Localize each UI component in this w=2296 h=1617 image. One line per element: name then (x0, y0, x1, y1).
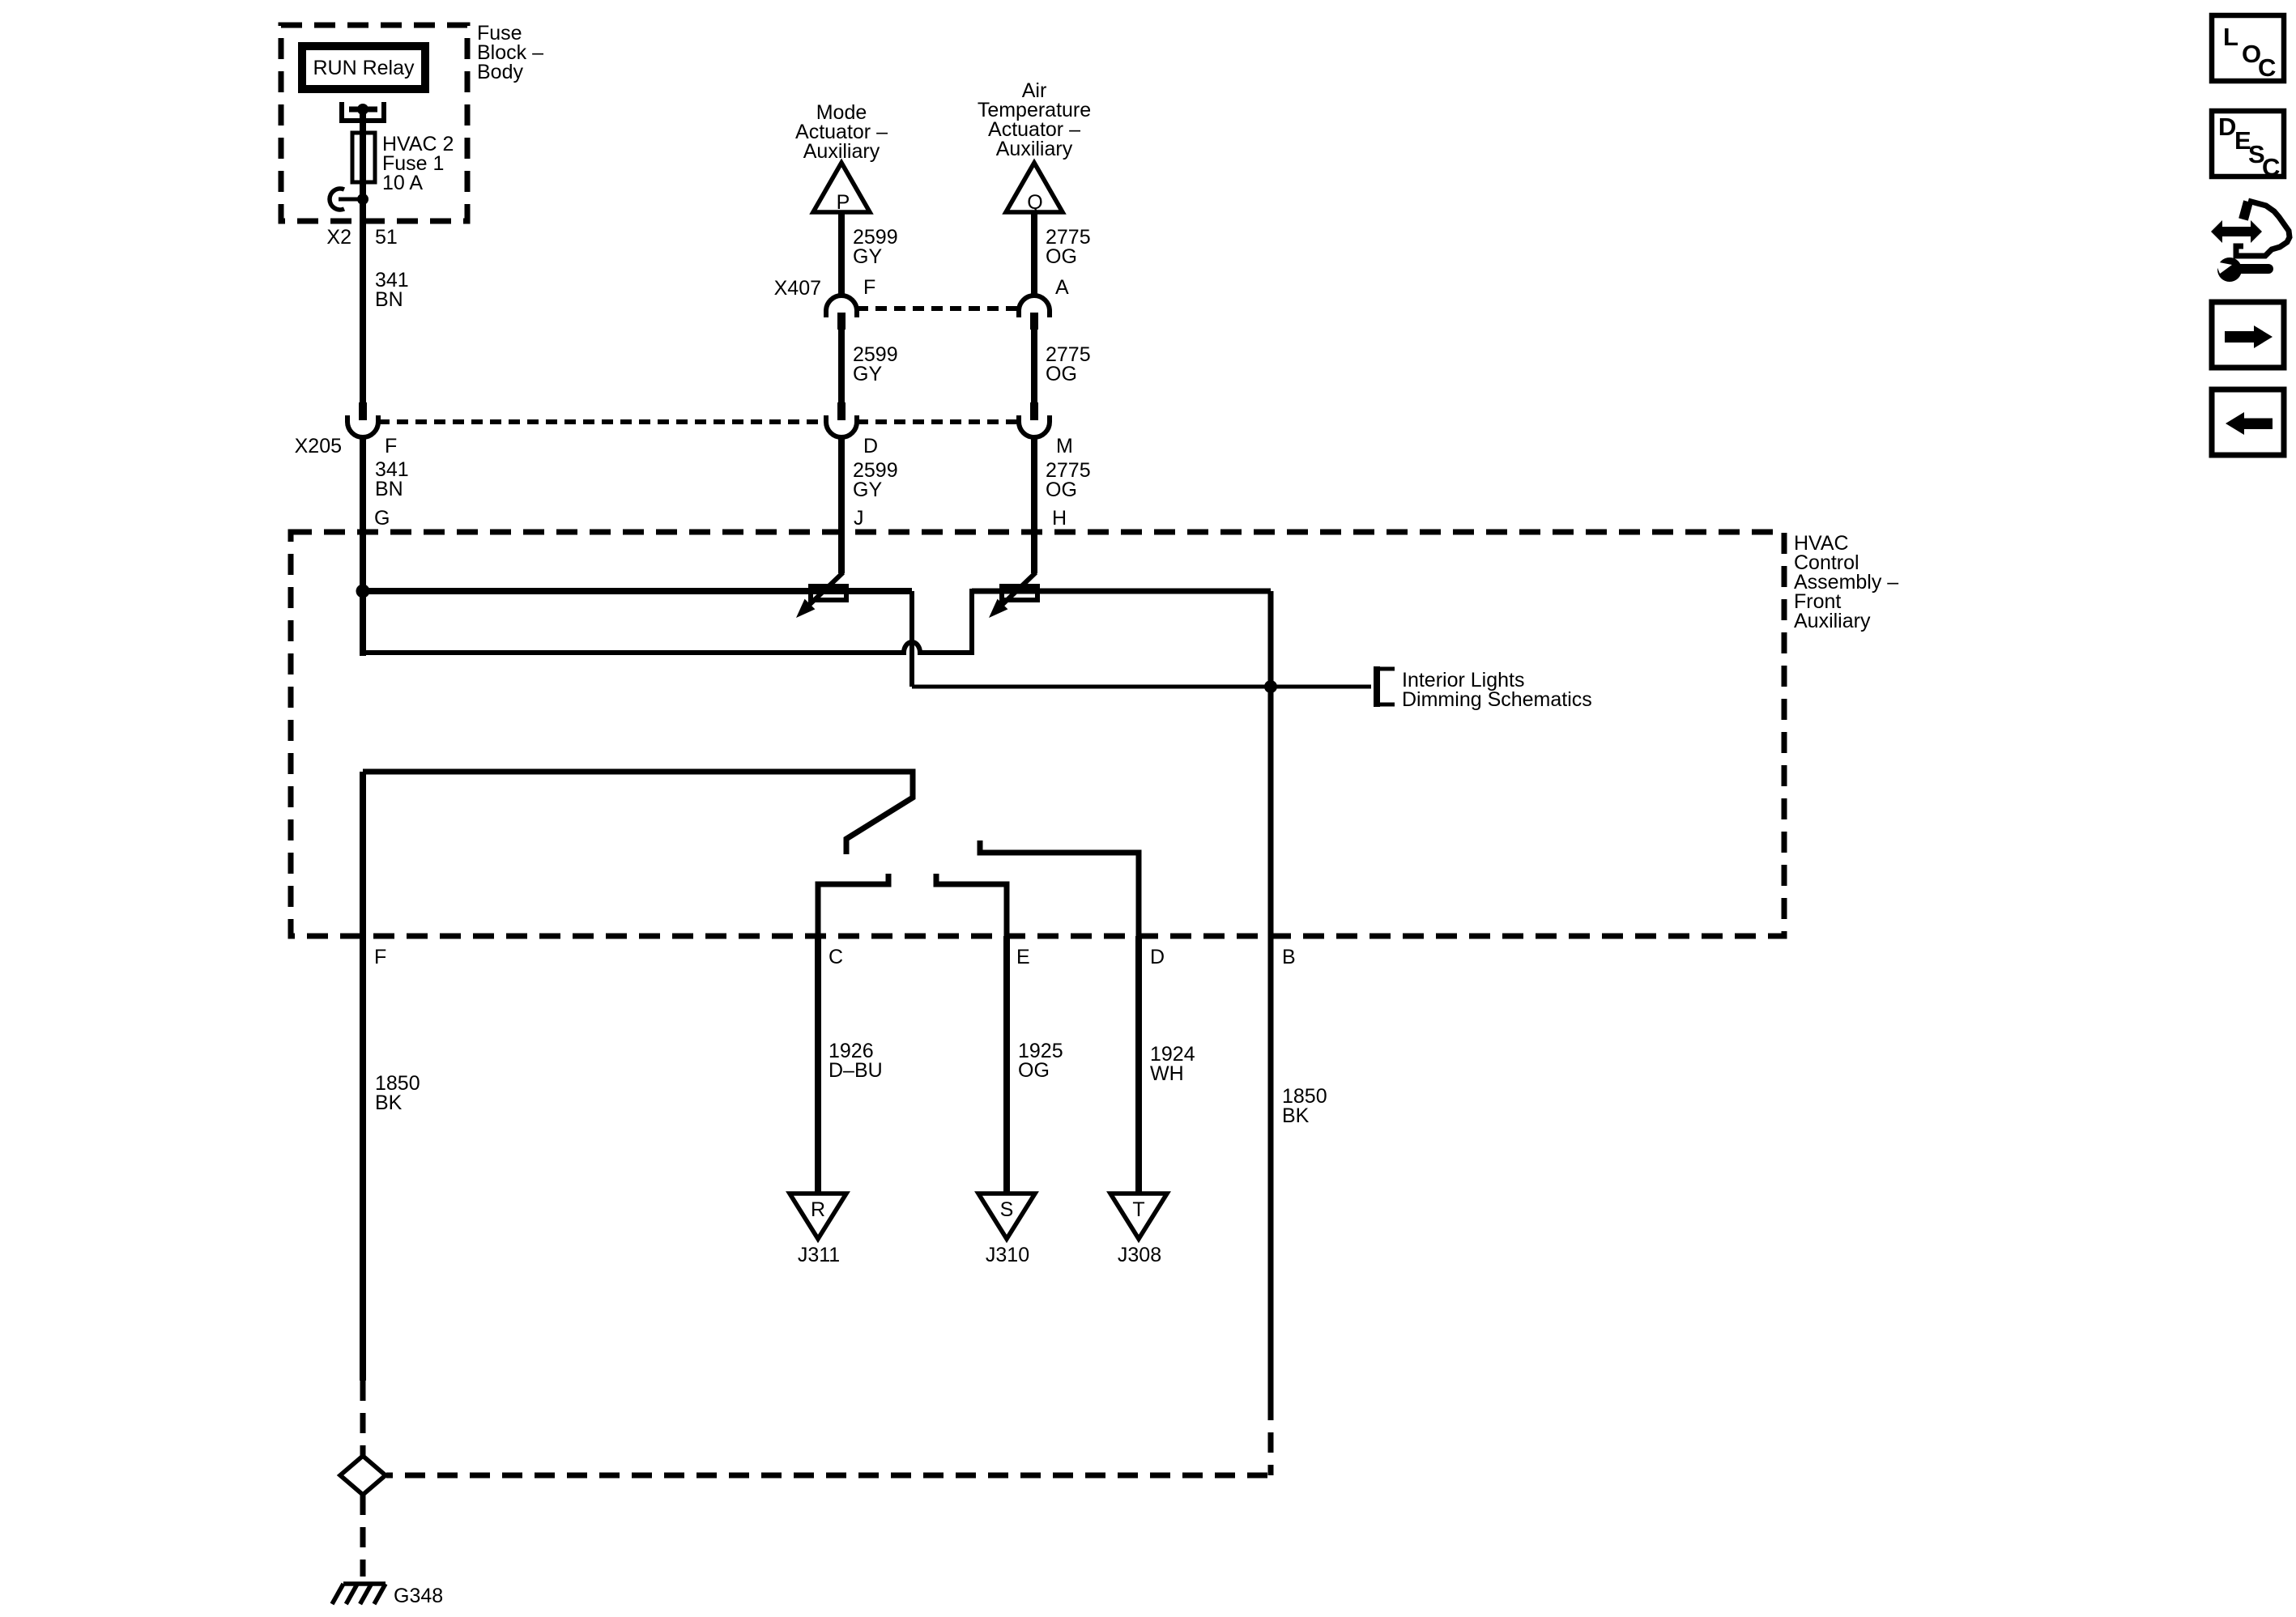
triangle connector S (978, 1194, 1035, 1239)
svg-text:M: M (1056, 435, 1073, 457)
svg-text:Auxiliary: Auxiliary (996, 138, 1073, 160)
dashed connector line X205 (378, 419, 826, 424)
fuse block dashed box: Fuse Block - Body (281, 25, 467, 221)
switch contact E (936, 874, 1007, 936)
svg-text:G348: G348 (394, 1585, 443, 1607)
svg-text:BN: BN (375, 478, 403, 500)
svg-text:E: E (1016, 946, 1030, 968)
icon wrench handle (2237, 264, 2268, 274)
svg-text:F: F (374, 946, 386, 968)
svg-text:C: C (2258, 53, 2276, 82)
svg-text:BN: BN (375, 288, 403, 311)
svg-text:S: S (1000, 1198, 1014, 1221)
connector X205 pin M arc (1019, 415, 1050, 437)
interior lights bracket (1374, 666, 1380, 707)
wire C 1926 D-BU (815, 936, 821, 1192)
connector tick (339, 198, 363, 202)
connector X205 pin D male blade (837, 402, 846, 420)
connector X205 pin M male blade (1030, 402, 1038, 420)
pot2 diagonal (997, 572, 1036, 610)
svg-text:T: T (1132, 1198, 1144, 1221)
svg-text:OG: OG (1046, 479, 1077, 501)
svg-text:OG: OG (1018, 1059, 1050, 1082)
wire: fuse block X2 pin 51 down to X205 (360, 199, 366, 403)
icon forward arrow box (2212, 302, 2284, 368)
wire Q to X407 (1031, 212, 1037, 297)
icon wrench notch (2215, 262, 2232, 274)
svg-text:R: R (811, 1198, 825, 1221)
svg-text:L: L (2223, 23, 2238, 51)
svg-text:WH: WH (1150, 1062, 1184, 1085)
connector X205 pin D arc (826, 415, 857, 437)
icon DESC box (2212, 111, 2284, 177)
svg-text:C: C (2262, 153, 2280, 181)
pot2 rect (1002, 586, 1037, 600)
switch contact C (818, 874, 888, 936)
svg-text:J310: J310 (986, 1244, 1029, 1266)
icon schematic reference double arrow (2211, 220, 2262, 243)
svg-text:J311: J311 (798, 1244, 840, 1266)
connector X407 pin F arc (826, 296, 857, 317)
wire F inside box (360, 772, 366, 936)
wire pot2 horizontal (972, 589, 1271, 594)
svg-text:Body: Body (477, 61, 523, 83)
svg-text:F: F (385, 435, 397, 457)
switch blade from F wire (363, 772, 913, 854)
pot1 diagonal (804, 572, 843, 610)
connector X407 pin A male blade (1030, 313, 1038, 330)
connector X407 pin A arc (1019, 296, 1050, 317)
wire 2775 OG below X205 (1031, 437, 1037, 532)
splice diamond (340, 1456, 386, 1495)
svg-text:51: 51 (375, 226, 398, 249)
svg-text:P: P (837, 191, 850, 214)
wire 341 BN below X205 (360, 437, 366, 532)
svg-text:Dimming Schematics: Dimming Schematics (1402, 688, 1592, 711)
wire E 1925 OG (1003, 936, 1010, 1192)
svg-text:J: J (854, 507, 864, 530)
connector hook at fuse output (330, 189, 344, 210)
junction dot B (1264, 680, 1277, 693)
junction dot at relay terminal (357, 104, 368, 115)
HVAC Control Assembly dashed box (291, 532, 1784, 936)
pot1 arrowhead (796, 599, 815, 618)
triangle connector Q (1006, 163, 1063, 212)
wire B vertical from pot2 (1268, 591, 1274, 1400)
svg-text:H: H (1052, 507, 1067, 530)
triangle connector P (813, 163, 870, 212)
dashed wire B to splice (386, 1473, 1267, 1479)
svg-text:D: D (863, 435, 878, 457)
svg-text:GY: GY (853, 363, 882, 385)
icon LOC box (2212, 15, 2284, 81)
wire G into box (360, 532, 366, 656)
relay RUN Relay box (302, 46, 425, 89)
wire J to pot1 (838, 532, 845, 573)
dashed wire F to ground splice (360, 1381, 366, 1456)
wire P to X407 (838, 212, 845, 297)
svg-text:D–BU: D–BU (829, 1059, 883, 1082)
pot2 arrowhead (989, 599, 1007, 618)
wire lower horizontal with hop (363, 591, 1001, 653)
svg-text:X2: X2 (326, 226, 351, 249)
junction dot at fuse output (357, 194, 368, 205)
svg-text:10 A: 10 A (382, 172, 423, 194)
svg-text:X205: X205 (295, 435, 342, 457)
fuse F1: HVAC 2 Fuse 1 10 A (352, 133, 375, 182)
wire 2775 OG between X407 and X205 (1031, 330, 1037, 403)
wire F 1850 BK below box (360, 936, 366, 1381)
svg-text:RUN Relay: RUN Relay (313, 57, 415, 79)
wire vertical drop after pot1 (909, 591, 914, 687)
connector X205 pin F male blade (359, 402, 367, 420)
svg-text:OG: OG (1046, 363, 1077, 385)
svg-text:B: B (1282, 946, 1296, 968)
ground G348 (343, 1581, 386, 1586)
svg-text:C: C (829, 946, 843, 968)
svg-text:D: D (1150, 946, 1165, 968)
svg-text:X407: X407 (774, 277, 821, 300)
icon back arrow box (2212, 389, 2284, 455)
dashed wire splice to ground (360, 1495, 366, 1577)
triangle connector R (790, 1194, 846, 1239)
triangle connector T (1110, 1194, 1167, 1239)
pot1 rect (811, 586, 846, 600)
icon schematic reference band (2243, 202, 2248, 219)
wire 2599 GY between X407 and X205 (838, 330, 845, 403)
svg-text:GY: GY (853, 479, 882, 501)
dashed connector line X407 (857, 306, 1019, 311)
svg-text:F: F (863, 276, 875, 299)
svg-text:OG: OG (1046, 245, 1077, 268)
wire relay to fuse (360, 109, 366, 202)
junction dot left (356, 585, 370, 598)
svg-text:Auxiliary: Auxiliary (1794, 610, 1871, 632)
svg-text:A: A (1055, 276, 1069, 299)
svg-text:BK: BK (375, 1091, 403, 1114)
relay contact bracket (342, 102, 384, 121)
wire H to pot2 (1031, 532, 1037, 573)
connector X407 pin F male blade (837, 313, 846, 330)
svg-text:G: G (374, 507, 390, 530)
wire D 1924 WH (1135, 936, 1142, 1192)
dashed wire B down (1268, 1400, 1274, 1475)
svg-text:Q: Q (1027, 191, 1042, 214)
connector X205 pin F arc (347, 415, 378, 437)
svg-text:BK: BK (1282, 1104, 1310, 1127)
svg-text:J308: J308 (1118, 1244, 1161, 1266)
wire horizontal to interior lights (912, 685, 1371, 689)
relay terminal bar (349, 107, 377, 113)
wire top horizontal through pot1 (363, 588, 912, 594)
icon schematic reference outline (2236, 201, 2290, 256)
wire 2599 GY below X205 (838, 437, 845, 532)
svg-text:GY: GY (853, 245, 882, 268)
switch contact D (980, 840, 1139, 936)
icon wrench head (2217, 257, 2242, 282)
